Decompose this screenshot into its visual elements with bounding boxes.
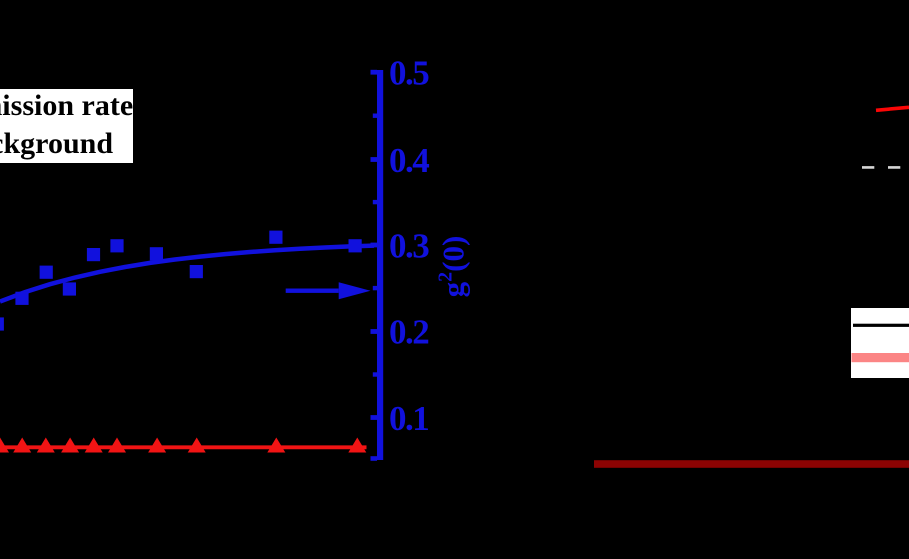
blue arrow (286, 282, 371, 299)
data point square S6 (110, 239, 123, 252)
data point triangle T7 (148, 438, 166, 453)
data point square S5 (87, 248, 100, 261)
data point triangle T4 (61, 438, 79, 453)
minor tick 0.35 (373, 200, 377, 204)
data point triangle T3 (37, 438, 55, 453)
minor ticks (373, 114, 377, 377)
data point triangle T5 (85, 438, 103, 453)
major tick 0.2 (371, 329, 378, 334)
svg-text:background: background (0, 127, 113, 160)
data point square S3 (40, 266, 53, 279)
blue data squares (0, 231, 362, 331)
right legend pink line (852, 353, 909, 362)
svg-text:g2(0): g2(0) (435, 236, 471, 298)
blue saturation curve (0, 246, 374, 302)
red background line (0, 445, 367, 449)
data point square S10 (349, 239, 362, 252)
right legend box (851, 308, 909, 378)
top-right red curve segment (876, 107, 909, 110)
major tick 0.4 (371, 157, 378, 162)
red background triangles (0, 438, 366, 453)
major tick 0.5 (371, 70, 378, 75)
axis bottom end tick (371, 456, 378, 461)
dark red line (594, 460, 909, 468)
right legend black line (853, 324, 909, 327)
data point triangle T1 (0, 438, 9, 453)
gray dashed line (862, 166, 909, 169)
major tick 0.1 (371, 415, 378, 420)
data point triangle T10 (348, 438, 366, 453)
data point square S7 (150, 247, 163, 260)
data point triangle T9 (267, 438, 285, 453)
major tick 0.3 (371, 243, 378, 248)
blue right axis line (377, 70, 383, 460)
svg-text:0.4: 0.4 (389, 141, 429, 180)
data point square S9 (269, 231, 282, 244)
data point triangle T6 (108, 438, 126, 453)
data point square S8 (190, 265, 203, 278)
minor tick 0.45 (373, 114, 377, 118)
left legend box (0, 89, 133, 163)
major ticks (371, 70, 378, 420)
svg-text:0.3: 0.3 (389, 226, 429, 265)
data point triangle T2 (13, 438, 31, 453)
data point triangle T8 (188, 438, 206, 453)
minor tick 0.25 (373, 286, 377, 290)
svg-text:0.1: 0.1 (389, 399, 428, 438)
axis tick labels (389, 53, 429, 438)
data point square S2 (15, 292, 28, 305)
svg-text:0.5: 0.5 (389, 53, 429, 92)
svg-text:0.2: 0.2 (389, 312, 428, 351)
data point square S4 (63, 282, 76, 295)
svg-text:emission rate: emission rate (0, 89, 133, 122)
minor tick 0.15 (373, 372, 377, 376)
data point square S1 (0, 317, 4, 330)
